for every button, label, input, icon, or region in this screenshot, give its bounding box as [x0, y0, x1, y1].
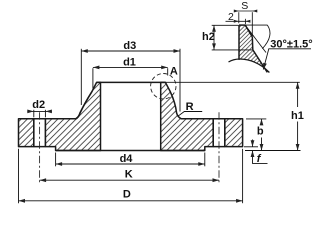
svg-text:d4: d4	[120, 153, 134, 165]
bolt hole right (white)	[214, 118, 225, 148]
svg-text:d1: d1	[123, 56, 136, 68]
bolt hole left edges	[34, 119, 46, 147]
detail inner wall	[238, 25, 240, 60]
detail circle A	[151, 74, 176, 99]
bolt hole centerline left	[39, 112, 41, 182]
svg-text:d2: d2	[32, 99, 45, 111]
dimension S	[236, 11, 255, 36]
dimension K	[40, 179, 219, 181]
svg-text:b: b	[257, 126, 264, 138]
extension line neck top to h1	[165, 81, 299, 83]
flange body left half (hub + plate), hatched	[19, 82, 101, 150]
svg-text:2: 2	[228, 11, 234, 23]
dimension d2	[27, 110, 51, 118]
svg-text:d3: d3	[123, 40, 136, 52]
dimension b	[261, 119, 263, 151]
dimension h2	[212, 25, 253, 50]
svg-text:D: D	[123, 189, 131, 201]
dimension D	[19, 149, 243, 203]
detail top face	[239, 24, 245, 26]
detail section hatched	[239, 25, 263, 67]
plate bottom edge across holes	[34, 146, 225, 148]
raised face bottom edge across bore	[56, 150, 205, 152]
svg-text:K: K	[125, 168, 133, 180]
angle 30 deg reference line	[245, 24, 267, 26]
bolt hole left (white)	[34, 118, 45, 148]
angle arc	[262, 25, 270, 49]
detail break curve	[229, 59, 270, 72]
detail hub flare edge	[253, 50, 267, 73]
detail 30deg bevel	[245, 25, 252, 37]
extension line raised-face bottom right	[245, 150, 301, 152]
bolt hole right edges	[213, 119, 225, 147]
dimension f	[253, 140, 268, 164]
extension line plate top right	[246, 118, 266, 120]
dimension 2 (root face)	[226, 19, 249, 24]
dimension h1	[297, 82, 299, 150]
detail outer wall	[251, 37, 254, 50]
bolt hole centerline right	[218, 112, 220, 182]
neck top edge across bore	[97, 81, 166, 83]
left flare curve redraw	[76, 92, 92, 119]
dimension d3	[81, 49, 180, 112]
angle leg line	[245, 25, 266, 52]
svg-text:S: S	[241, 0, 248, 12]
svg-text:h1: h1	[291, 110, 304, 122]
svg-text:A: A	[170, 66, 178, 78]
dimension d4	[56, 153, 205, 167]
flange body right half (hub + plate), hatched	[161, 82, 243, 150]
plate top edge across holes	[34, 118, 225, 120]
extension line plate bottom right	[244, 146, 258, 148]
dimension d1	[93, 67, 168, 88]
svg-text:h2: h2	[202, 31, 215, 43]
